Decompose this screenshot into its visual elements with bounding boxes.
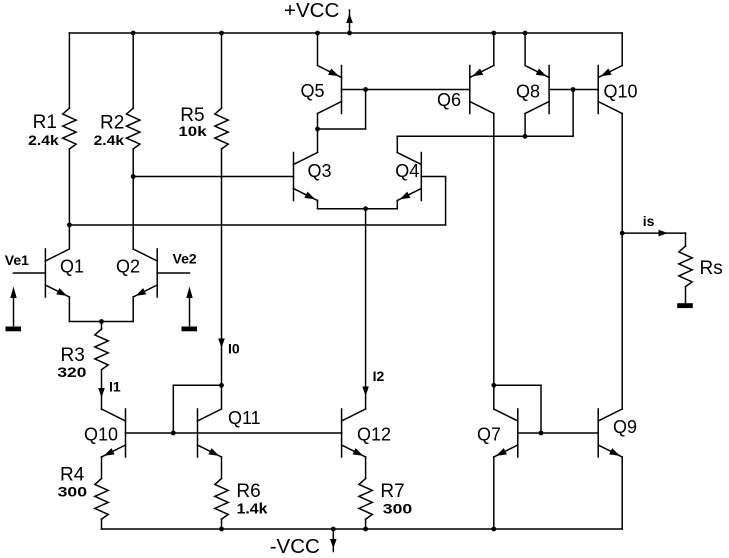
svg-text:R7: R7	[380, 481, 404, 502]
svg-text:Q11: Q11	[228, 408, 261, 428]
svg-text:I1: I1	[109, 378, 121, 394]
svg-text:Ve1: Ve1	[5, 252, 29, 268]
svg-text:Q5: Q5	[301, 81, 325, 101]
svg-text:I2: I2	[373, 368, 385, 384]
svg-text:10k: 10k	[178, 123, 206, 139]
svg-text:Q4: Q4	[395, 161, 419, 181]
svg-text:Q6: Q6	[437, 90, 461, 110]
svg-text:Ve2: Ve2	[173, 251, 197, 267]
svg-text:1.4k: 1.4k	[237, 500, 268, 517]
svg-text:-VCC: -VCC	[270, 535, 320, 558]
svg-text:Q12: Q12	[357, 424, 391, 444]
svg-text:300: 300	[58, 484, 88, 500]
svg-text:R6: R6	[236, 481, 260, 502]
svg-text:Q7: Q7	[477, 425, 501, 445]
svg-text:Q8: Q8	[516, 82, 540, 102]
svg-text:Q9: Q9	[613, 417, 637, 437]
svg-text:R4: R4	[60, 465, 85, 486]
svg-text:Q1: Q1	[60, 256, 84, 276]
svg-text:2.4k: 2.4k	[94, 132, 125, 148]
svg-text:2.4k: 2.4k	[28, 132, 59, 148]
svg-text:+VCC: +VCC	[284, 0, 339, 22]
svg-text:Q2: Q2	[116, 256, 140, 276]
svg-text:Rs: Rs	[700, 258, 723, 279]
svg-text:I0: I0	[228, 340, 240, 356]
svg-text:R1: R1	[33, 112, 57, 133]
svg-text:R2: R2	[100, 112, 124, 133]
svg-text:Q3: Q3	[308, 161, 332, 181]
svg-text:Q10: Q10	[84, 425, 118, 445]
svg-text:300: 300	[383, 501, 413, 517]
svg-text:Q10: Q10	[604, 82, 638, 102]
svg-text:320: 320	[57, 364, 86, 380]
svg-text:is: is	[643, 213, 655, 229]
